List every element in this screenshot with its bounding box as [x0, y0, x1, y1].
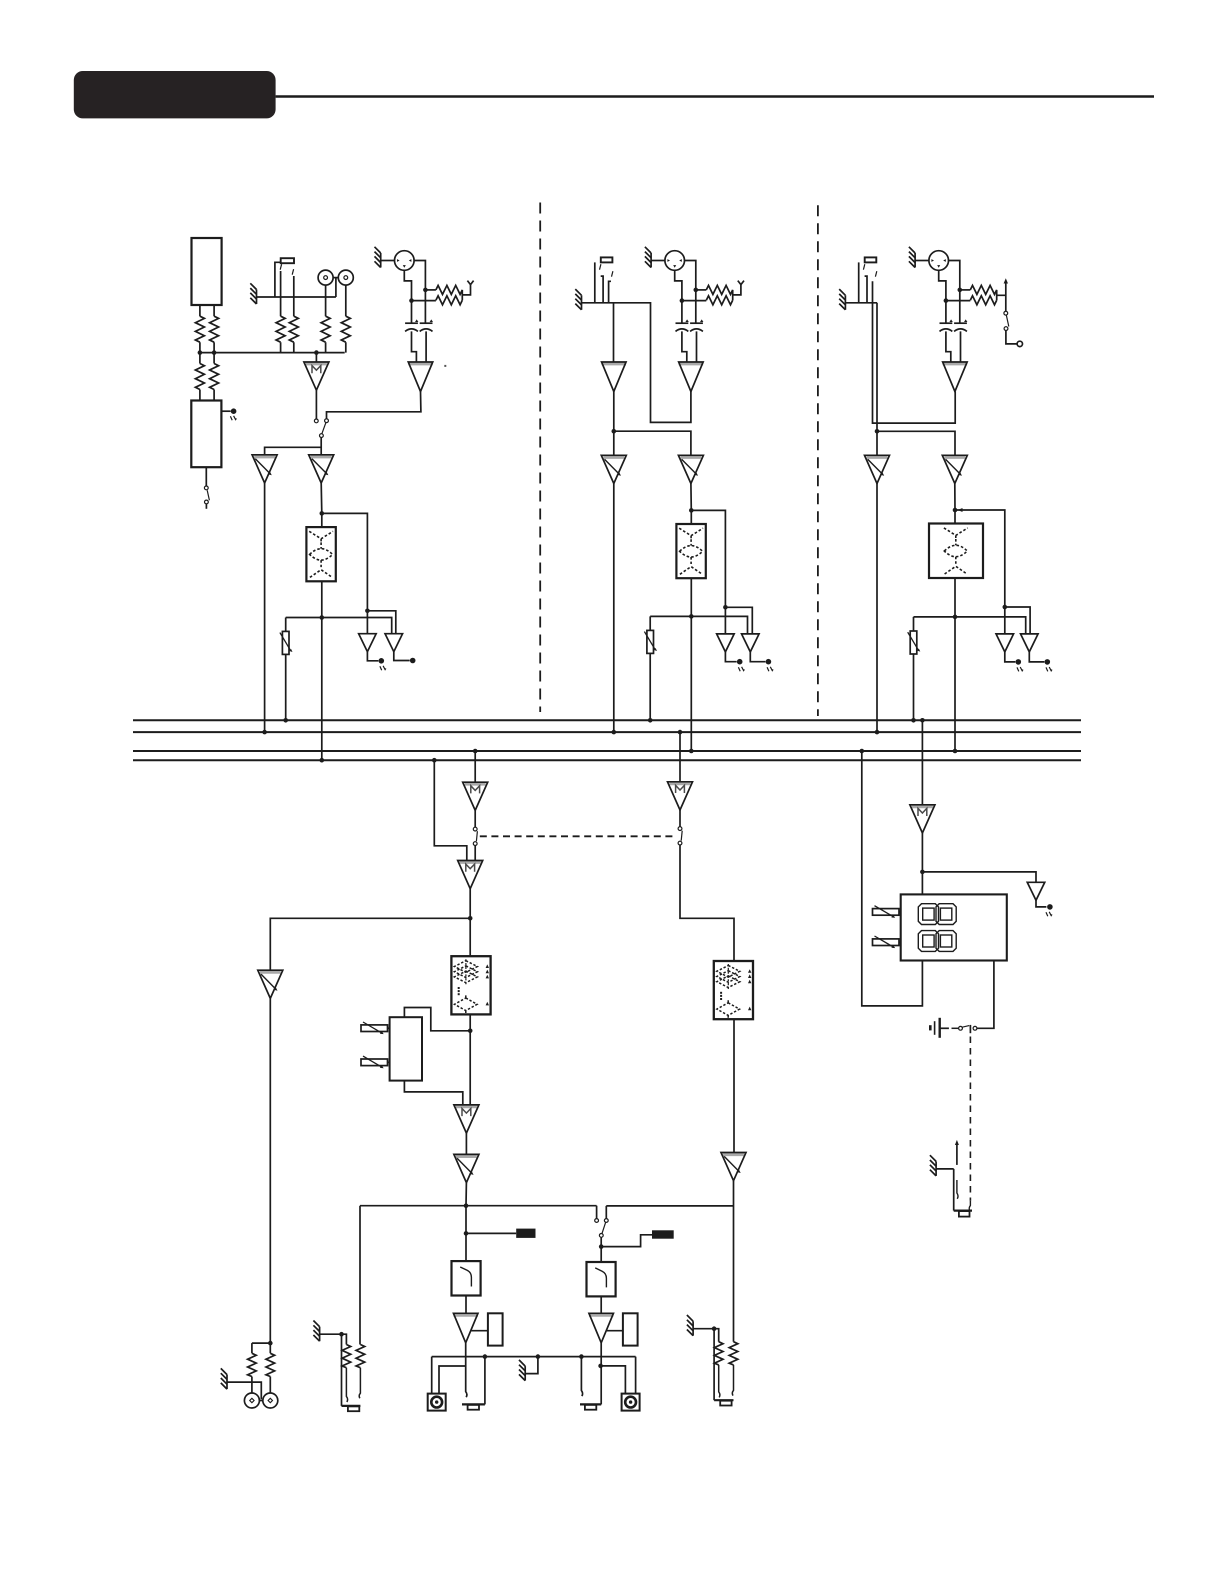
wire RCA link: [333, 277, 338, 279]
aux amp ch1 A: [359, 634, 377, 652]
wire bottom tie rail: [432, 1357, 636, 1394]
junction monitor split: [468, 916, 473, 921]
capacitor C5 ch3: [940, 319, 953, 331]
mark aux ch1: [380, 666, 386, 670]
wire bus line4 to sum amp: [434, 760, 467, 860]
op-amp U8 sum M: [454, 1105, 479, 1133]
headphone jack L: [341, 1334, 343, 1406]
wire caps to head amp ch3: [946, 331, 961, 362]
wire ch3 pre aux rail: [1005, 607, 1030, 634]
wire master R down: [733, 1181, 735, 1342]
mark aux ch2 A: [738, 667, 744, 671]
wire ch3 pre aux branch: [955, 510, 1005, 634]
wire aux outs ch2: [725, 652, 765, 662]
LED indicator L: [516, 1229, 535, 1238]
ground hp L: [313, 1321, 319, 1342]
filter block R: [587, 1262, 616, 1296]
resistor ch2 fb R12: [706, 296, 732, 305]
bus line 2: [133, 731, 1081, 733]
junction master L: [464, 1203, 469, 1208]
load block L: [488, 1313, 503, 1345]
block delay/osc: [390, 1017, 422, 1080]
resistor ch1 R8: [341, 316, 350, 342]
switch SW1 below B2: [204, 486, 208, 490]
fader ch2 L: [601, 455, 626, 483]
terminal dot aux ch2 A: [737, 659, 743, 665]
junction ch3 join: [875, 429, 880, 434]
wire gnd to XLR: [651, 260, 665, 262]
wire ch3 pan to bus: [913, 654, 915, 720]
battery symbol: [929, 1025, 932, 1030]
RCA jack rec R: [263, 1393, 278, 1408]
wire U10 out: [921, 833, 923, 894]
switch SW5 master L: [473, 827, 477, 831]
wire fb join ch3: [946, 290, 1006, 301]
junction ch2 L bus: [612, 730, 617, 735]
wire filter R to amp: [600, 1296, 602, 1313]
wire tip R: [581, 1357, 582, 1397]
wire head amp fb top ch2: [696, 289, 707, 291]
junction ch3 post node: [953, 615, 958, 620]
junction dots fb ch2: [694, 288, 699, 293]
resistor rec L: [248, 1353, 257, 1376]
ground ch3 XLR: [909, 247, 915, 268]
pad switch SW4 ch3: [1005, 284, 1007, 312]
ganged switch dashed link: [480, 835, 676, 837]
junction dots fb: [423, 288, 428, 293]
junction ch2 pan bus: [648, 718, 653, 723]
op-amp U4 ch2 head amp: [679, 362, 704, 392]
resistor ch2 fb R11: [706, 285, 732, 294]
wire delay block out: [404, 1081, 462, 1105]
wire ch2 jack rail: [582, 303, 691, 423]
wire ch3 jack lines down: [873, 281, 956, 455]
wire battery to switch: [940, 1027, 949, 1029]
mark aux ch2 B: [767, 667, 773, 671]
switch SW3 mic/line: [314, 419, 318, 423]
aux amp ch2 A: [717, 634, 735, 652]
junction ch3 EQ bus: [953, 749, 958, 754]
wire U8 out: [465, 1133, 467, 1154]
capacitor C6 ch3: [954, 319, 967, 331]
op-amp U12 power R: [589, 1313, 614, 1343]
wire resistors to RCA: [252, 1377, 270, 1394]
wire resistors to block B2: [200, 353, 214, 401]
resistor ch3 fb R14: [970, 296, 996, 305]
wire aux outs ch3: [1005, 652, 1045, 662]
wire filter L to amp: [465, 1296, 467, 1314]
ground ch1 XLR: [375, 247, 381, 268]
capacitor C1: [405, 319, 418, 331]
ground ch2 jack: [575, 289, 581, 310]
channel separator dashed line 1: [539, 203, 541, 713]
capacitor C4 ch2: [690, 319, 703, 331]
junction dots fb ch3: [958, 288, 963, 293]
wire output rail R: [606, 1206, 733, 1219]
wire to capacitors ch3: [946, 290, 960, 323]
wire ch3 jack rail: [845, 302, 877, 304]
wire ch1 L fader to bus: [264, 483, 266, 732]
insert point Y ch1: [467, 281, 473, 285]
op-amp U7 sum amp: [458, 861, 483, 889]
junction ch1 node dots: [198, 350, 203, 355]
junction ch2 EQ bus: [689, 749, 694, 754]
wire head amp out to switch: [327, 392, 421, 419]
wire FX1 out: [469, 1014, 471, 1105]
wire ch1 ground rail: [257, 262, 336, 297]
wire ch1 pre aux rail: [367, 611, 395, 634]
wire bus to master amp R: [679, 732, 681, 782]
wire display switch out: [977, 961, 994, 1029]
wire ch2 EQ out: [690, 578, 692, 751]
resistor ch1 fb R10: [436, 296, 462, 305]
effect block FX1: [451, 956, 490, 1014]
resistor ch1 R6: [289, 316, 298, 342]
aux amp ch1 B: [385, 634, 403, 652]
junction ch2 post node: [689, 614, 694, 619]
ground hp R: [687, 1315, 693, 1336]
wire B2 side tap: [221, 410, 230, 412]
bus line 1: [133, 719, 1081, 721]
wire gnd rail rec: [227, 1382, 261, 1399]
wire display loop: [862, 751, 923, 1006]
fader ch2 R: [678, 455, 703, 483]
wire switch drop left: [596, 1206, 598, 1219]
pot delay B: [361, 1056, 388, 1068]
wire B2 bottom: [205, 467, 207, 486]
7seg row 2: [918, 931, 956, 952]
mark monitor aux: [1046, 912, 1052, 916]
mark aux ch3 B: [1046, 667, 1052, 671]
wire SW5 to sum amp: [474, 846, 476, 861]
junction rec out: [268, 1341, 273, 1346]
wire output rail L: [360, 1206, 597, 1345]
resistor ch1 R5: [276, 316, 285, 342]
wire bus to monitor amp: [921, 720, 923, 805]
wire to capacitors ch2: [682, 290, 696, 323]
wire to LED R: [601, 1235, 652, 1247]
wire ch3 R fader to EQ: [954, 484, 956, 524]
fader master out L: [454, 1154, 479, 1182]
junction ch2 join: [612, 429, 617, 434]
wire master R to FX2: [680, 845, 734, 961]
mark aux ch3 A: [1017, 667, 1023, 671]
wire RCA link rec: [259, 1400, 262, 1402]
aux amp ch3 B: [1021, 634, 1039, 652]
terminal dot aux ch2 B: [766, 659, 772, 665]
stray dot: [444, 365, 446, 367]
wire aux outs ch1: [367, 652, 409, 661]
ground footswitch: [930, 1155, 936, 1176]
junction ch1 pre tap: [320, 511, 325, 516]
fader monitor level: [258, 970, 283, 998]
terminal dot aux ch1 A: [379, 658, 385, 664]
XLR connector J3 ch2: [665, 251, 685, 271]
junction hp L: [339, 1332, 344, 1337]
pan pot ch2: [644, 630, 657, 653]
junction bus aux feed: [432, 758, 437, 763]
wire pots to display: [899, 912, 901, 942]
ground ch1 input: [250, 283, 256, 304]
wire U9 out: [679, 810, 681, 827]
junction ch2 aux pre dot: [723, 605, 728, 610]
aux amp monitor: [1027, 882, 1045, 900]
wire R7 R8 to node: [326, 342, 346, 352]
EQ block ch3: [929, 524, 983, 579]
wire monitor aux out: [1036, 900, 1046, 907]
RCA jack ch1 L: [318, 270, 333, 285]
wire ch3 L fader to bus: [876, 484, 878, 733]
capacitor C2: [420, 319, 433, 331]
wire ch1 summing node: [200, 352, 345, 354]
RCA jack ch1 R: [338, 270, 353, 285]
resistor rec R: [266, 1353, 275, 1376]
resistor ch1 fb R9: [436, 285, 462, 294]
wire ch2 R fader to EQ: [690, 484, 692, 525]
wire gnd to XLR ch3: [915, 260, 929, 262]
wire RCA R link: [601, 1366, 626, 1394]
switch SW7 remote: [959, 1026, 963, 1030]
wire rec out split: [252, 1343, 270, 1353]
wire gnd to footswitch jack: [936, 1168, 954, 1170]
pot meter A: [873, 906, 900, 918]
junction display loop bus: [860, 749, 865, 754]
wire head amp fb top: [425, 289, 436, 291]
header rule: [276, 95, 1154, 97]
terminal dot aux ch3 B: [1045, 659, 1051, 665]
bus line 4: [133, 759, 1081, 761]
pan pot ch1: [280, 631, 293, 654]
wire ch2 amps join: [614, 390, 691, 455]
wire caps to head amp ch2: [682, 331, 697, 362]
wire ch2 jack to line amp: [613, 303, 615, 362]
aux amp ch2 B: [742, 634, 760, 652]
filter block L: [452, 1261, 481, 1295]
EQ block ch2: [676, 524, 705, 578]
fader ch3 L: [865, 455, 890, 483]
wire master L down: [465, 1183, 467, 1262]
wire XLR pin2 out: [414, 261, 425, 290]
terminal dot aux ch3 A: [1016, 659, 1022, 665]
dashed remote wire: [969, 1037, 971, 1201]
wire to capacitors: [412, 290, 426, 323]
wire ch3 EQ out: [954, 578, 956, 751]
LED indicator R: [652, 1230, 674, 1238]
pan pot ch3: [908, 631, 921, 654]
wire monitor line down: [269, 998, 271, 1343]
op-amp U9 master sum R: [668, 782, 693, 810]
wire head amp fb top ch3: [960, 289, 971, 291]
junction monitor aux: [920, 870, 925, 875]
wire sleeve L: [484, 1357, 486, 1405]
junction ch3 L bus: [875, 730, 880, 735]
terminal dot monitor aux: [1047, 904, 1053, 910]
wire gnd to hp R: [693, 1328, 714, 1330]
wire ch1 pan to bus: [285, 654, 287, 720]
resistor ch1 lower R3: [195, 364, 204, 390]
wire ch1 post aux rail: [286, 618, 392, 634]
capacitor C3 ch2: [676, 319, 689, 331]
ground ch3 jack: [839, 289, 845, 310]
load block R: [623, 1313, 638, 1345]
wire ch3 post aux rail: [914, 617, 1026, 634]
op-amp U10 monitor M: [910, 805, 935, 833]
junction hp R: [712, 1326, 717, 1331]
junction ch1 post node: [320, 615, 325, 620]
bus line 3: [133, 750, 1081, 752]
wire pots to block: [388, 1028, 390, 1062]
op-amp U2 head amp: [408, 362, 433, 392]
pot delay A: [361, 1022, 388, 1034]
op-amp U3 ch2 line amp: [602, 362, 627, 392]
wire XLR pin3 out ch2: [675, 270, 682, 300]
resistor ch1 pad R1: [195, 316, 204, 342]
fader ch3 R: [942, 455, 967, 483]
junction LED L: [464, 1231, 469, 1236]
junction ch1 L bus: [262, 730, 267, 735]
wire U6 out: [474, 810, 476, 827]
wire ch2 pan to bus: [649, 653, 651, 720]
ground ch2 XLR: [645, 247, 651, 268]
switch SW6 master R: [678, 827, 682, 831]
mark B2 tap: [230, 416, 236, 420]
junction FX tap: [468, 1029, 473, 1034]
wire fb join: [412, 285, 471, 301]
wire mic amp out to switch: [315, 390, 317, 419]
wire ch2 pre aux rail: [725, 607, 752, 634]
wire ch2 post aux rail: [650, 616, 747, 634]
RCA square jack R: [622, 1394, 640, 1411]
terminal dot B2 tap: [231, 408, 237, 414]
phone jack plate L: [462, 1403, 485, 1405]
op-amp U1 mic amp M: [304, 362, 329, 390]
phone jack J4 ch3 with switch: [865, 257, 877, 262]
wire delay block link: [404, 1008, 470, 1031]
wire ch1 EQ out: [321, 581, 323, 760]
phone jack J2 ch2 with switch: [601, 257, 613, 262]
pot meter B: [873, 936, 900, 948]
fader master out R: [721, 1153, 746, 1181]
display block meter: [901, 894, 1007, 960]
insert point Y ch2: [738, 281, 744, 285]
header label block: [74, 71, 276, 118]
aux amp ch3 A: [996, 634, 1014, 652]
phone jack plate R: [580, 1403, 601, 1405]
op-amp U5 ch3 head amp: [943, 362, 968, 392]
XLR connector J5 ch3: [929, 251, 949, 271]
junction LED R: [599, 1244, 604, 1249]
channel separator dashed line 2: [817, 205, 819, 716]
wire caps to head amp: [412, 331, 427, 362]
block B2 (ch1 insert): [191, 401, 221, 468]
junction bus R feed: [678, 730, 683, 735]
wire SW8 to filter R: [600, 1237, 602, 1262]
junction ch3 aux pre dot: [1003, 605, 1008, 610]
wire RCA to resistors: [326, 285, 346, 316]
wire to LED L: [466, 1232, 516, 1234]
wire to ground mid: [525, 1357, 538, 1374]
junction ch1 pan bus: [283, 718, 288, 723]
wire XLR pin2 out ch3: [949, 261, 960, 290]
junction dots tie rail: [483, 1354, 488, 1359]
wire gnd to XLR: [381, 260, 395, 262]
XLR connector J1: [395, 251, 415, 271]
wire RCA L link: [439, 1366, 466, 1394]
wire fb join ch2: [682, 285, 741, 301]
resistor ch1 R7: [321, 316, 330, 342]
wire B1 to resistors: [200, 305, 214, 353]
wire monitor branch: [270, 918, 470, 970]
resistor ch1 pad R2: [210, 316, 219, 342]
fader ch1 L: [252, 455, 277, 483]
wire SW2 contacts to resistors: [281, 271, 294, 316]
wire XLR pin2 out ch2: [685, 261, 696, 290]
terminal dot aux ch1 B: [410, 658, 416, 664]
EQ block ch1: [306, 527, 335, 581]
fader ch1 R: [309, 455, 334, 483]
junction ch3 pan bus: [911, 718, 916, 723]
footswitch jack: [953, 1169, 955, 1211]
wire ch2 L fader to bus: [613, 484, 615, 733]
wire bus to master amp L: [474, 751, 476, 782]
wire XLR pin3 out: [404, 270, 411, 300]
pushbutton SW2 ch1: [281, 258, 294, 263]
effect block FX2: [714, 961, 753, 1019]
junction ch3 pre tap: [953, 508, 958, 513]
op-amp U6 master sum L: [463, 782, 488, 810]
junction bus L feed: [473, 749, 478, 754]
wire amp R out: [600, 1343, 602, 1405]
wire U7 out to FX loop: [469, 889, 471, 957]
headphone jack R: [713, 1329, 715, 1401]
wire monitor aux branch: [922, 872, 1036, 882]
wire switch to faders: [265, 437, 322, 455]
junction ch1 EQ bus: [320, 758, 325, 763]
wire ch1 pre aux branch: [322, 513, 368, 633]
op-amp U11 power L: [453, 1313, 478, 1343]
arrow mark ch3 tap: [958, 508, 963, 512]
junction ch1 aux pre dot: [365, 609, 370, 614]
wire node to mic amp: [315, 353, 317, 362]
wire amp L out: [466, 1343, 467, 1397]
resistor ch1 lower R4: [210, 364, 219, 390]
wire XLR pin3 out ch3: [939, 270, 946, 300]
ground rec out: [221, 1368, 227, 1389]
ground output mid: [519, 1360, 525, 1381]
RCA jack rec L: [244, 1393, 259, 1408]
7seg row 1: [918, 904, 956, 925]
block B1 (ch1 input pad): [192, 238, 222, 305]
wire FX2 out: [733, 1019, 735, 1152]
resistor ch3 fb R13: [970, 285, 996, 294]
wire ch2 pre aux branch: [691, 510, 725, 634]
wire ch1 R fader to EQ: [320, 483, 323, 527]
RCA square jack L: [428, 1394, 446, 1411]
junction ch2 pre tap: [689, 508, 694, 513]
junction bus monitor feed: [920, 718, 925, 723]
switch SW8 output: [595, 1219, 599, 1223]
wire R5 R6 to node: [281, 342, 294, 352]
wire gnd to hp L: [320, 1333, 342, 1335]
